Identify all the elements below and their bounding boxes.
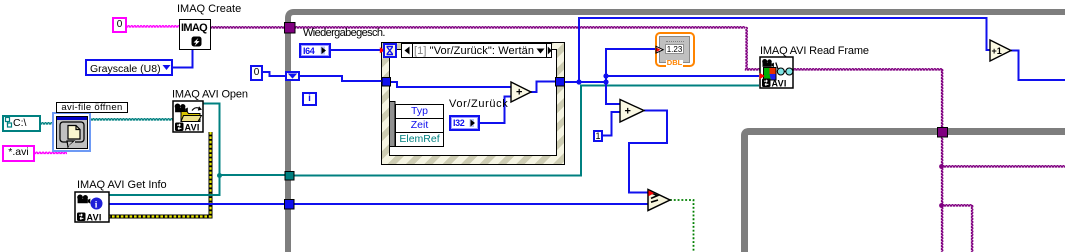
wire: path constant to file dialog (teal wavy) (41, 123, 53, 124)
wire: teal branch into loop tunnel (219, 86, 759, 176)
wire: shift register to event tunnel (300, 76, 383, 81)
coercion arrow at Read Frame input (760, 73, 765, 79)
event structure frame (382, 43, 565, 165)
tunnel: event structure right (556, 78, 565, 87)
increment +1 node (990, 40, 1011, 61)
junction dots on blue wires (576, 73, 608, 84)
wire: string constant 0 to IMAQ Create (magenta wavy) (127, 26, 180, 27)
string constant 0 (image name) (112, 17, 127, 33)
greater-or-equal comparison node (648, 190, 670, 211)
event timeout terminal (383, 43, 397, 58)
add function (inside event) (511, 82, 531, 102)
wire: file dialog path out to IMAQ AVI Open (teal wavy) (89, 119, 173, 120)
IMAQ AVI Read Frame node (760, 57, 793, 89)
wire: I64 to event timeout (331, 49, 380, 51)
tunnel: event structure left (382, 78, 391, 87)
tunnel: frame count into loop (285, 200, 295, 210)
tunnel: image wire into outer loop (285, 23, 296, 34)
while loop (inner, bottom right) (745, 132, 1065, 252)
IMAQ AVI Get Info node (75, 192, 109, 223)
numeric constant 0 (blue, to shift register) (250, 65, 263, 81)
IMAQ Create node (179, 19, 211, 50)
add function U2 (620, 100, 644, 123)
IMAQ AVI Open node (173, 101, 203, 133)
string constant *.avi (2, 145, 35, 162)
I64 control terminal (299, 43, 331, 58)
wire: AVI refnum teal from AVI Open down to Get Info (109, 104, 220, 196)
file path constant C:\ (2, 115, 41, 132)
wire: constant 1 to add2 (602, 112, 620, 136)
wire: image wire into IMAQ AVI Read Frame and onward (745, 69, 943, 70)
junction on image wire (939, 164, 944, 169)
wire: image branch right then down (942, 205, 972, 206)
wire: frame number to Read Frame (606, 75, 759, 77)
wire: branch to DBL indicator (606, 49, 656, 82)
wire: event out junction run (564, 81, 606, 83)
wire: add out to right tunnel (531, 82, 556, 93)
wire: I32 to add (480, 97, 511, 124)
while loop (outer) (288, 12, 1065, 252)
label avi-file öffnen (56, 102, 128, 113)
Grayscale (U8) ring constant (85, 59, 173, 76)
wire: image wire vertical drop (746, 27, 747, 69)
tunnel: image wire into inner loop (938, 128, 948, 138)
wire: frame count to comparison (109, 203, 648, 205)
event data node spine (390, 102, 396, 147)
tunnel: teal refnum into loop (285, 172, 294, 181)
label Wiedergabegesch. (303, 28, 385, 39)
coercion arrow at event timeout (380, 47, 385, 53)
DBL indicator 1.23 (655, 32, 695, 67)
I32 control terminal (449, 115, 480, 131)
wire: up and over to increment (579, 18, 990, 82)
event data node rows (395, 104, 444, 146)
wire: increment output to edge (1011, 51, 1065, 81)
wire: add2 output to comparison (629, 111, 667, 193)
wire: event tunnel to add (390, 82, 511, 87)
wire: Grayscale ring to IMAQ Create (173, 50, 193, 68)
numeric constant 1 (593, 130, 603, 142)
event structure header (401, 43, 552, 58)
file dialog express VI (52, 112, 91, 152)
wire: constant 0 to shift register (263, 72, 286, 76)
wire: AVI refnum (yellow dashed) from AVI Open down to Get Info (108, 132, 211, 217)
junction on image wire (939, 203, 944, 208)
indicator input arrow at DBL (656, 46, 663, 53)
wire: IMAQ image from IMAQ Create into loop tunnel (purple wavy) (211, 27, 745, 28)
iteration terminal i (302, 92, 317, 106)
wire: image wire down through inner loop tunnel (942, 69, 943, 252)
wire: branch down to add2 (606, 82, 620, 104)
wire: *.avi pattern to file dialog (magenta wavy) (35, 152, 67, 153)
wire: boolean result (green dotted) (670, 200, 694, 252)
junction on teal wire (217, 173, 222, 178)
label Vor/Zurück (449, 99, 508, 110)
wire: image branch right at y=167 (942, 166, 1065, 167)
shift register (left) (285, 71, 300, 81)
label IMAQ Create (177, 4, 241, 15)
